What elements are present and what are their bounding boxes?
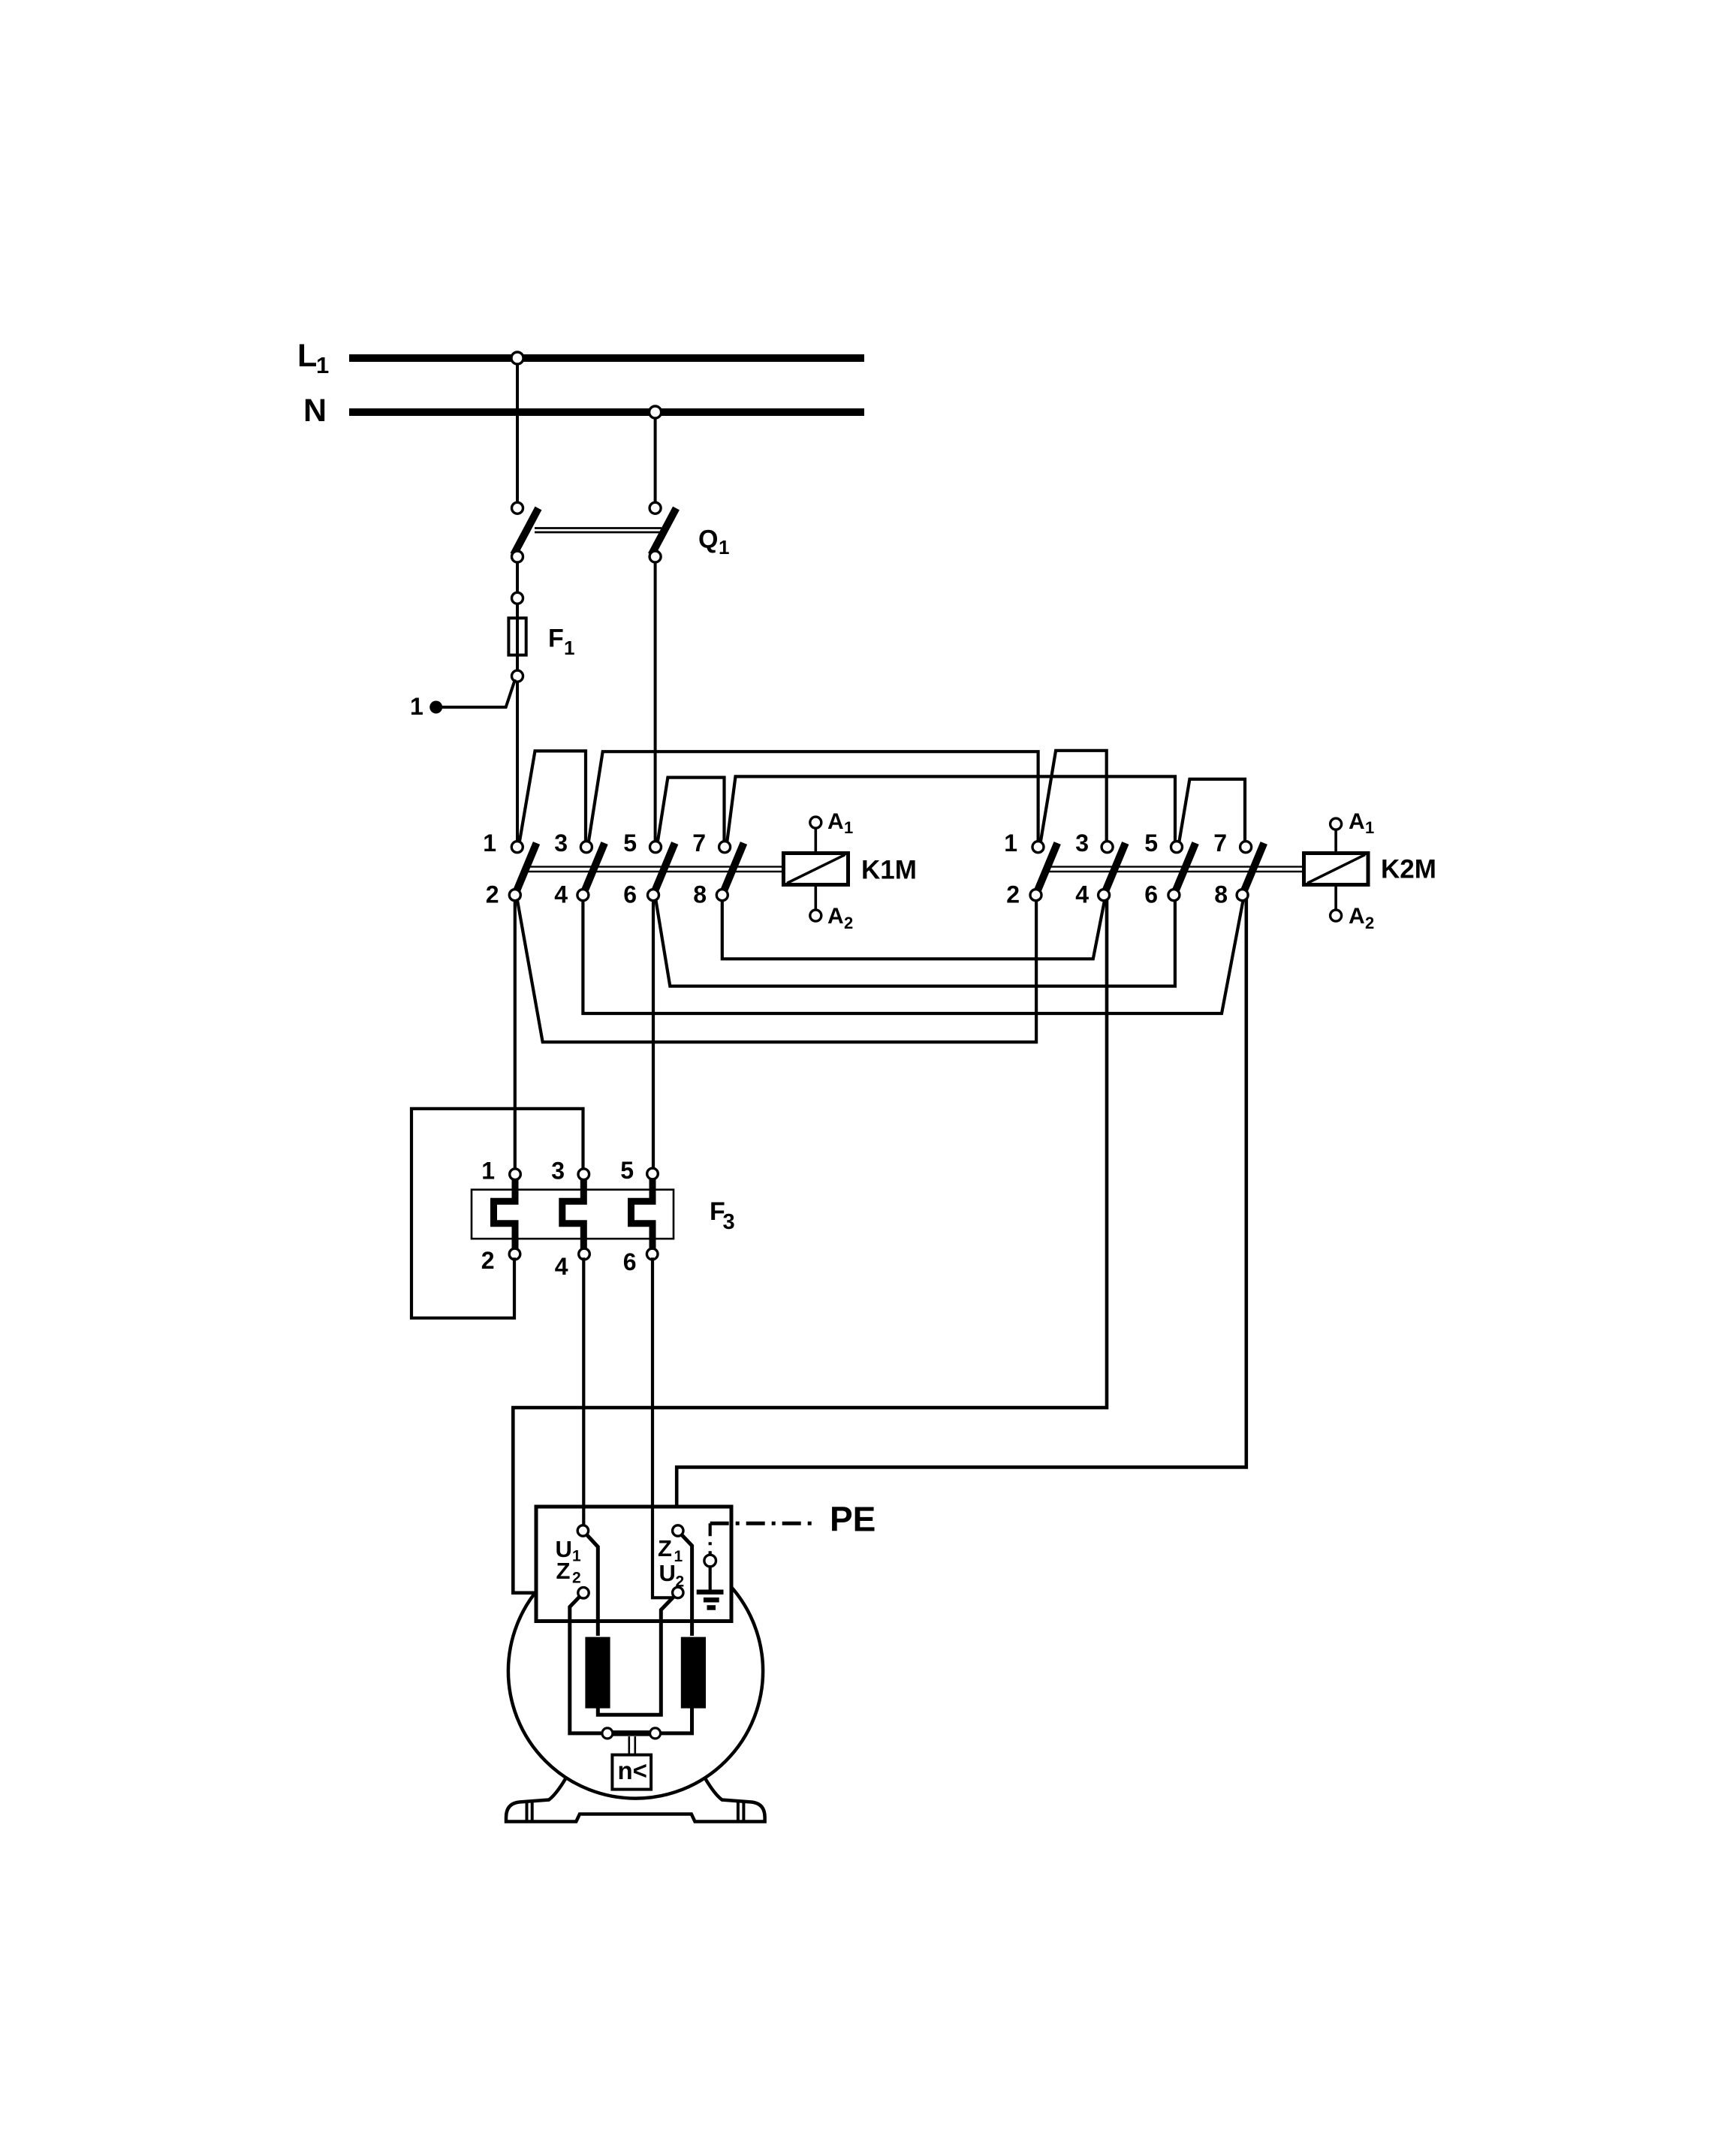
K2M terminal circle 5 [1171,842,1183,853]
contactor K2M linkage [1047,866,1304,867]
switch Q1 mechanical link [535,527,662,529]
svg-text:PE: PE [830,1500,876,1539]
K2M terminal circle 7 [1240,842,1252,853]
K1M terminal circle 1 [511,842,523,853]
PE dash-dot wire vertical [709,1523,712,1554]
wire F1 to K1M contact 1 [516,676,519,845]
svg-text:Q: Q [698,525,718,554]
svg-text:1: 1 [564,637,574,659]
wire node 1 to F1 bottom [437,679,515,707]
F1 top terminal [512,592,523,604]
F3 heater element 3-4 [562,1177,584,1248]
svg-text:A: A [827,904,844,929]
K1M terminal circle 5 [650,842,662,853]
node junction on L1 [511,352,523,364]
wire loop F3-2 to F3-3 [411,1109,583,1318]
svg-text:7: 7 [692,830,706,857]
svg-text:1: 1 [1365,818,1374,837]
PE dash-dot wire horizontal [710,1522,812,1525]
wire N to Q1 pole2 [654,412,657,503]
motor terminal box [536,1507,731,1622]
F3 terminal circle 4 [579,1248,590,1260]
svg-text:8: 8 [693,881,707,908]
motor feet [506,1778,765,1822]
strap Z1 to aux winding [682,1535,692,1637]
svg-text:3: 3 [554,830,568,857]
coil K2M [1304,854,1369,885]
svg-text:1: 1 [316,352,329,378]
svg-text:4: 4 [555,1253,568,1280]
wire K2M4 to motor Z2 [513,898,1107,1593]
svg-text:N: N [303,393,327,429]
svg-text:5: 5 [620,1157,634,1184]
motor body circle [508,1543,763,1798]
svg-text:1: 1 [572,1548,581,1565]
wire K1M8 to K2M4 [722,898,1105,959]
svg-text:Z: Z [556,1558,571,1584]
svg-text:1: 1 [1004,830,1017,857]
svg-text:3: 3 [551,1158,565,1185]
svg-text:1: 1 [719,536,729,559]
contactor K1M contact bar 5-6 [653,843,675,895]
K1M terminal circle 6 [648,890,659,901]
svg-text:A: A [1349,904,1365,929]
svg-text:4: 4 [1075,881,1089,908]
strap U2 to main winding bottom [598,1597,674,1715]
F3 terminal circle 5 [647,1168,659,1179]
svg-text:Z: Z [658,1535,672,1561]
svg-text:6: 6 [623,881,637,908]
K2M terminal circle 8 [1237,890,1248,901]
switch Q1 pole1 contact bar [514,508,538,555]
wire F3-6 to terminal U2 [653,1257,674,1597]
F3 heater element 5-6 [631,1177,653,1248]
wire Q1 pole1 to F1 [516,556,519,598]
contactor K2M contact bar 5-6 [1174,843,1195,895]
svg-text:K2M: K2M [1381,855,1436,884]
wire feed K1M7 to K2M5 [727,776,1175,845]
node junction on N [649,406,662,418]
svg-text:1: 1 [481,1158,495,1185]
bus L1 [349,354,864,362]
terminal U2 [673,1587,683,1597]
wire feed K1M3 to K2M1 [589,751,1038,845]
wire K1M6 to F3 terminal 5 [652,898,655,1171]
contactor K2M contact bar 7-8 [1243,843,1264,895]
wire bridge K2M 5-7 [1179,779,1245,845]
svg-text:2: 2 [481,1247,495,1274]
svg-text:2: 2 [676,1573,685,1591]
svg-text:6: 6 [1144,881,1158,908]
svg-text:F: F [548,625,564,653]
F1 bottom terminal [512,670,523,682]
K2M terminal circle 3 [1102,842,1113,853]
svg-text:A: A [827,809,844,834]
K1M terminal circle 8 [716,890,728,901]
wire K1M2 to K2M2 [517,898,1037,1042]
K2M terminal circle 6 [1168,890,1180,901]
svg-text:A: A [1349,809,1365,834]
svg-text:n<: n< [618,1757,647,1784]
K1M coil terminal A2 [815,885,818,911]
svg-text:3: 3 [723,1210,735,1234]
svg-text:2: 2 [486,881,499,908]
PE terminal [704,1555,716,1567]
centrifugal switch contact b [650,1728,661,1739]
svg-text:2: 2 [844,914,853,932]
Q1 pole1 top terminal [512,502,523,513]
K1M terminal circle 4 [577,890,589,901]
coil K1M [783,854,848,885]
wire K1M4 to K2M8 [583,898,1243,1013]
Q1 pole1 bottom terminal [512,551,523,562]
svg-text:K1M: K1M [861,856,917,885]
wire bridge K2M 1-3 [1041,751,1107,845]
svg-text:U: U [659,1560,676,1586]
node 1 dot [429,701,442,714]
foot hatch right [737,1802,740,1822]
F3 terminal circle 6 [646,1248,658,1260]
K2M coil terminal A2 [1334,885,1337,911]
wire bridge K1M 1-3 [520,751,586,845]
svg-text:1: 1 [410,693,423,720]
wire K1M2 to F3 terminal 1 [514,898,517,1171]
svg-text:3: 3 [1075,830,1089,857]
svg-text:7: 7 [1213,830,1227,857]
strap U1 to main winding [587,1535,598,1637]
wire through fuse F1 [516,598,519,676]
wire bridge K1M 5-7 [658,778,725,845]
K2M terminal circle 2 [1030,890,1041,901]
svg-text:6: 6 [623,1248,637,1275]
switch Q1 pole2 contact bar [652,508,677,555]
contactor K1M contact bar 3-4 [583,843,604,895]
foot hatch left [526,1802,529,1822]
contactor K2M contact bar 1-2 [1036,843,1058,895]
wire F3-4 to terminal U1 [582,1257,585,1527]
F3 terminal circle 2 [509,1248,520,1260]
svg-text:L: L [297,338,317,374]
wire K1M6 to K2M6 [656,898,1175,986]
wire K2M8 to motor Z1 [677,898,1246,1528]
contactor K1M linkage [527,866,783,867]
strap Z2 to centrifugal switch [570,1597,603,1733]
svg-text:2: 2 [572,1570,581,1587]
bus N [349,408,864,416]
contactor K1M contact bar 1-2 [515,843,537,895]
wire L1 to Q1 pole1 [516,358,519,503]
F3 heater element 1-2 [494,1177,516,1248]
fuse F1 body [508,618,526,655]
K2M terminal circle 1 [1032,842,1044,853]
K2M terminal circle 4 [1099,890,1110,901]
terminal Z2 [578,1588,589,1598]
K1M terminal circle 3 [580,842,592,853]
K1M coil terminal A1 [815,827,818,854]
svg-text:2: 2 [1365,914,1374,932]
wire aux winding bottom to centrifugal switch [660,1707,692,1733]
centrifugal switch contact a [602,1728,613,1739]
svg-text:5: 5 [1144,830,1158,857]
aux winding [681,1637,706,1709]
terminal Z1 [673,1525,683,1536]
K2M coil terminal A1 [1334,829,1337,854]
terminal U1 [577,1525,588,1536]
Q1 pole2 bottom terminal [649,551,661,562]
wire Q1 pole2 to K1M contact 5 [654,556,657,845]
svg-text:5: 5 [623,830,637,857]
svg-text:1: 1 [844,818,853,837]
Q1 pole2 top terminal [649,502,661,513]
contactor K1M contact bar 7-8 [722,843,744,895]
contactor K2M contact bar 3-4 [1104,843,1126,895]
centrifugal switch bar [611,1730,652,1736]
svg-text:1: 1 [483,830,496,857]
svg-text:8: 8 [1214,881,1228,908]
main winding [585,1637,610,1709]
F3 terminal circle 1 [510,1169,521,1180]
actuator linkage [628,1736,630,1755]
earth symbol [709,1567,712,1590]
overload relay F3 box [472,1190,674,1239]
F3 terminal circle 3 [578,1169,589,1180]
K1M terminal circle 2 [509,890,520,901]
svg-text:2: 2 [1006,881,1020,908]
K1M terminal circle 7 [719,842,731,853]
speed switch n box [612,1755,651,1790]
svg-text:4: 4 [554,881,568,908]
